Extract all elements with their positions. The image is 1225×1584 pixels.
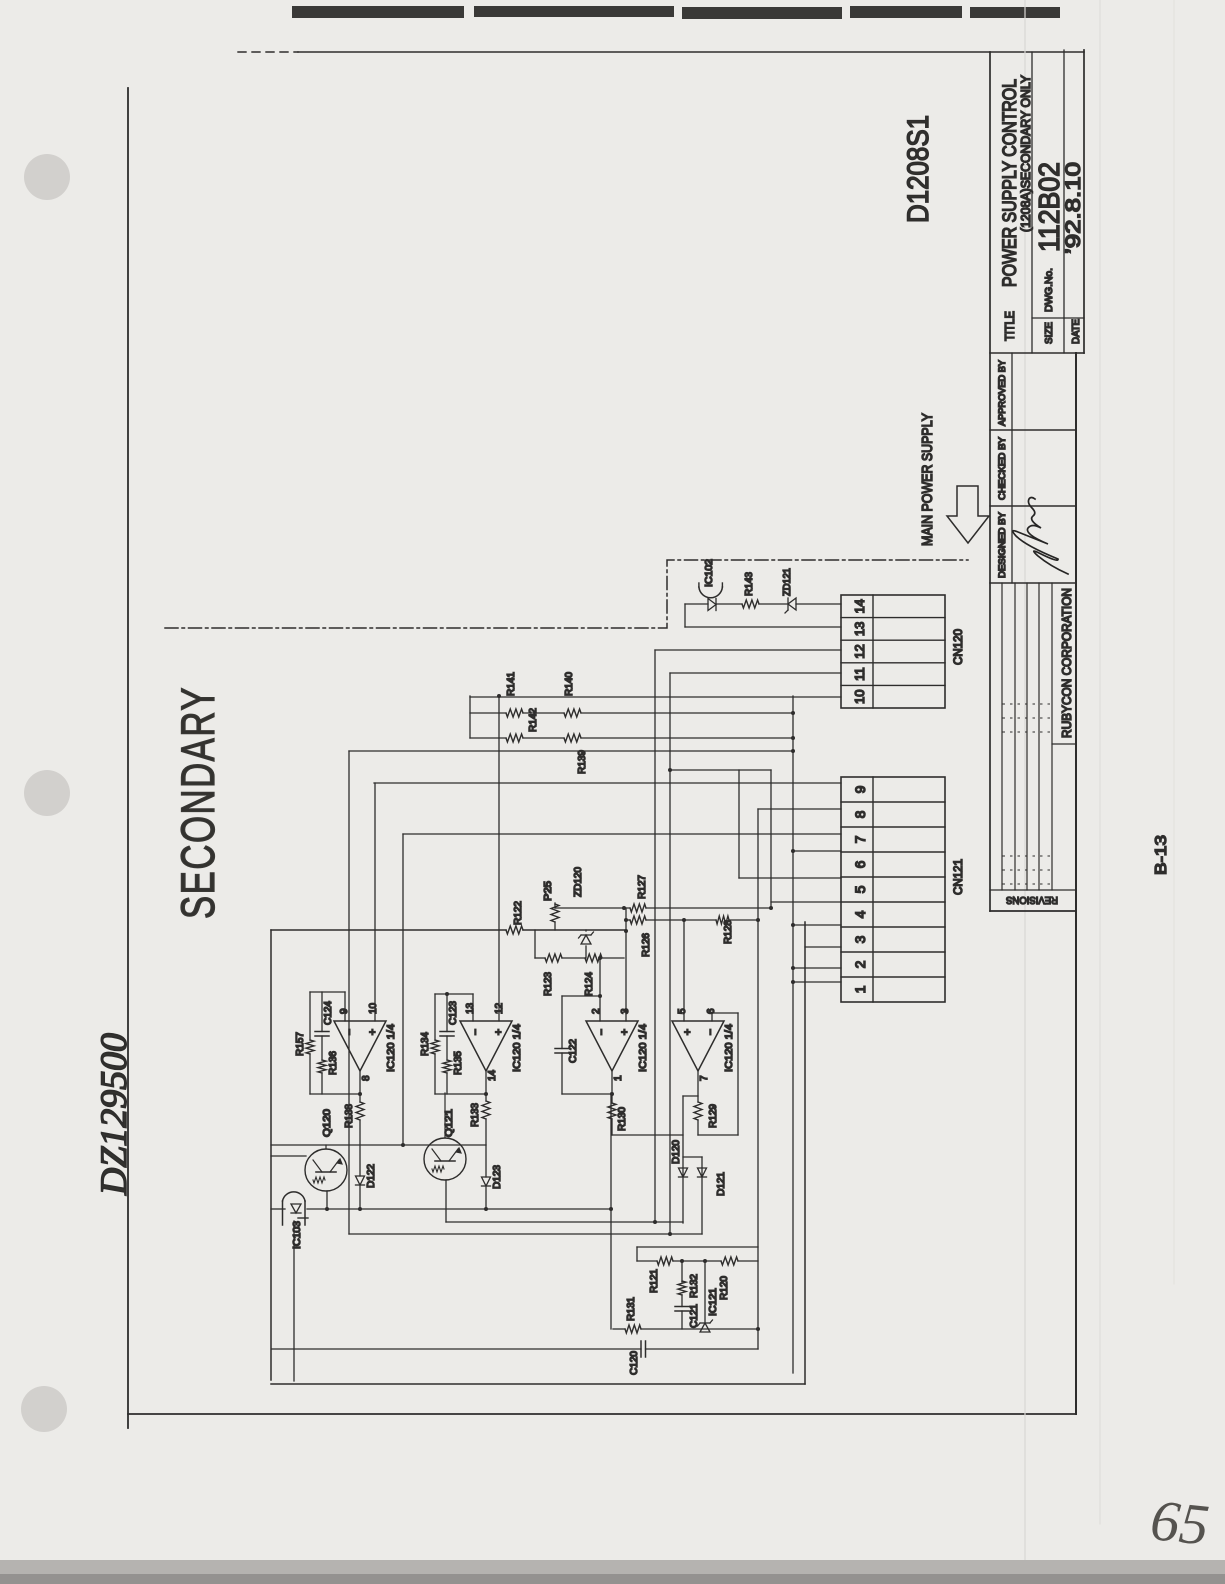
- svg-text:MAIN POWER SUPPLY: MAIN POWER SUPPLY: [919, 413, 936, 546]
- op-amp U1B IC120 1/4: [460, 1021, 512, 1071]
- resistor R128: [716, 916, 729, 924]
- svg-text:6: 6: [852, 860, 868, 868]
- svg-text:5: 5: [677, 1008, 688, 1014]
- svg-text:DESIGNED BY: DESIGNED BY: [997, 512, 1007, 578]
- resistor R121: [657, 1257, 673, 1265]
- SIZE divider line: [1032, 317, 1064, 319]
- svg-text:C122: C122: [568, 1039, 579, 1063]
- diode IC121 branch: [704, 1261, 706, 1322]
- wire CN121 pin8 lead: [758, 808, 841, 810]
- transistor Q120: [305, 1149, 347, 1191]
- wire long collector line y793: [792, 696, 794, 1373]
- svg-text:+: +: [493, 1029, 505, 1035]
- circuit enclosure rail left: [271, 1383, 805, 1385]
- svg-text:14: 14: [487, 1069, 498, 1081]
- svg-text:ZD120: ZD120: [573, 867, 584, 897]
- svg-text:+: +: [367, 1029, 379, 1035]
- opto coupler IC102 body: [699, 587, 723, 598]
- title block bottom extension: [1076, 352, 1084, 354]
- wire CN121 pin4 bus: [770, 770, 772, 908]
- resistor R141: [506, 709, 523, 717]
- designed-checked-approved column lines: [990, 582, 1076, 584]
- wire stage3 output: [611, 1071, 613, 1103]
- secondary boundary dash-dot line: [165, 560, 968, 628]
- resistor R124: [585, 954, 602, 962]
- resistor R142: [506, 734, 523, 742]
- wire R126 rail: [626, 919, 630, 921]
- wire stage3 noninverting input: [625, 908, 627, 1021]
- svg-text:D122: D122: [366, 1164, 377, 1188]
- svg-text:R120: R120: [719, 1276, 730, 1300]
- faint scanner streak line 3: [1173, 0, 1175, 1284]
- wire bus y349 drop: [349, 750, 793, 752]
- resistor R122: [506, 926, 523, 934]
- svg-text:IC120 1/4: IC120 1/4: [637, 1024, 649, 1072]
- wire CN121 pin2 lead: [793, 967, 841, 969]
- wire Q120 rail x439: [271, 1144, 486, 1146]
- svg-text:DZ129500: DZ129500: [94, 1033, 135, 1197]
- wire CN121 pin3 lead: [793, 924, 841, 926]
- svg-text:−: −: [705, 1029, 717, 1035]
- resistor R130: [608, 1103, 616, 1119]
- wire D120-D121 join: [683, 1156, 702, 1158]
- svg-text:R121: R121: [649, 1269, 660, 1293]
- svg-text:4: 4: [852, 910, 868, 918]
- svg-text:10: 10: [368, 1002, 379, 1014]
- svg-text:R130: R130: [617, 1107, 628, 1131]
- wire stage1 feedback top rail: [309, 1054, 311, 1094]
- svg-text:C123: C123: [448, 1001, 459, 1025]
- svg-text:10: 10: [852, 689, 867, 703]
- resistor R134: [431, 1040, 439, 1054]
- svg-text:R140: R140: [564, 672, 575, 696]
- wire stage2 feedback second rail: [446, 1073, 448, 1094]
- svg-text:13: 13: [465, 1002, 476, 1014]
- wire cluster inner rail: [637, 1260, 657, 1262]
- revisions dotted column dividers: [1003, 883, 1052, 885]
- svg-text:R135: R135: [453, 1051, 464, 1075]
- wire CN121 pin5 bus: [738, 770, 740, 878]
- svg-text:R122: R122: [513, 901, 524, 925]
- svg-text:R157: R157: [295, 1032, 306, 1056]
- circuit enclosure rail bottom: [804, 922, 806, 1384]
- svg-text:DWG.No.: DWG.No.: [1043, 268, 1055, 312]
- wire stage4 output: [697, 1071, 699, 1102]
- svg-text:1: 1: [613, 1075, 624, 1081]
- svg-text:R124: R124: [584, 972, 595, 996]
- capacitor C123: [440, 1035, 454, 1037]
- svg-text:SECONDARY: SECONDARY: [171, 686, 224, 919]
- svg-text:R126: R126: [641, 933, 652, 957]
- wire cluster outer rail: [637, 1246, 758, 1248]
- wire bus y349: [348, 751, 350, 1234]
- capacitor C122: [555, 1052, 569, 1054]
- connector CN120 body: [841, 595, 945, 708]
- wire CN121 pin4 lead: [771, 901, 841, 903]
- zener diode ZD121: [788, 598, 796, 610]
- resistor R136: [318, 1060, 326, 1073]
- resistor R140: [564, 709, 581, 717]
- wire stage2 feedback left vertical: [435, 1093, 486, 1095]
- svg-text:2: 2: [852, 960, 868, 968]
- wire divider bracket: [469, 696, 471, 738]
- wire bus y670: [669, 673, 671, 1234]
- svg-text:(1208A)SECONDARY ONLY: (1208A)SECONDARY ONLY: [1018, 75, 1033, 232]
- wire ground rail y611: [610, 1093, 612, 1329]
- wire Q120 emitter: [326, 1191, 328, 1209]
- capacitor C120: [640, 1341, 642, 1357]
- wire cluster spine: [757, 809, 759, 1349]
- svg-text:3: 3: [852, 935, 868, 943]
- svg-text:12: 12: [852, 644, 867, 658]
- wire Q121 emitter drop x362: [446, 1221, 683, 1223]
- svg-text:8: 8: [361, 1075, 372, 1081]
- wire Q120 base lead x428: [271, 1155, 306, 1157]
- sheet frame bottom border: [1075, 353, 1077, 1414]
- resistor R132: [678, 1281, 686, 1295]
- svg-text:R132: R132: [689, 1274, 700, 1298]
- title block outer top edge: [989, 52, 991, 911]
- svg-text:D1208S1: D1208S1: [902, 115, 935, 223]
- wire stage3 inverting input: [599, 958, 601, 1021]
- svg-text:+: +: [682, 1029, 694, 1035]
- wire stage2 inverting input: [472, 994, 474, 1021]
- faint scanner streak line 2: [1099, 0, 1101, 1524]
- svg-text:R127: R127: [637, 875, 648, 899]
- punch hole middle: [24, 770, 70, 816]
- title block revisions area left edge: [990, 910, 1076, 912]
- svg-text:8: 8: [852, 810, 868, 818]
- svg-text:CHECKED BY: CHECKED BY: [997, 437, 1007, 500]
- wire cluster ties: [636, 1247, 638, 1261]
- wire divider rail B: [470, 712, 506, 714]
- RUBYCON CORPORATION cell line: [1052, 743, 1076, 745]
- wire CN120 pin14 chain: [716, 603, 742, 605]
- zener diode ZD120 branch: [585, 946, 587, 958]
- svg-text:−: −: [596, 1029, 608, 1035]
- svg-text:7: 7: [699, 1075, 710, 1081]
- svg-text:R143: R143: [744, 572, 755, 596]
- sign header row line: [1011, 353, 1013, 583]
- svg-text:C124: C124: [323, 1001, 334, 1025]
- wire bus y655: [654, 650, 656, 1222]
- LED inside IC102: [708, 599, 716, 611]
- diode D121: [698, 1168, 707, 1177]
- svg-text:R128: R128: [723, 920, 734, 944]
- wire rail tie top: [534, 930, 536, 958]
- wire CN120 pin12 lead: [655, 649, 841, 651]
- svg-text:D120: D120: [671, 1140, 682, 1164]
- resistor R126: [630, 916, 646, 924]
- wire IC103 main rail x375: [271, 1208, 285, 1210]
- wire stage3 feedback right vertical: [562, 995, 600, 997]
- revisions cell divider: [990, 889, 1076, 891]
- wire stage4 output to R129: [697, 1120, 699, 1135]
- title row line: [1031, 52, 1033, 353]
- resistor R157: [306, 1040, 314, 1054]
- svg-text:RUBYCON CORPORATION: RUBYCON CORPORATION: [1059, 588, 1074, 738]
- wire R127 rail: [555, 907, 630, 909]
- svg-text:7: 7: [852, 835, 868, 843]
- svg-text:D123: D123: [492, 1165, 503, 1189]
- sheet frame top border: [127, 88, 129, 1428]
- resistor R131: [625, 1325, 641, 1333]
- resistor R138: [356, 1102, 364, 1120]
- op-amp U1C IC120 1/4: [586, 1021, 638, 1071]
- svg-text:R139: R139: [577, 750, 588, 774]
- diode D123: [482, 1177, 491, 1186]
- svg-text:’92.8.10: ’92.8.10: [1062, 162, 1085, 254]
- wire riser x814: [670, 769, 771, 771]
- op-amp U1D IC120 1/4: [672, 1021, 724, 1071]
- svg-text:DATE: DATE: [1070, 319, 1082, 344]
- svg-text:REVISIONS: REVISIONS: [1006, 894, 1058, 906]
- wire CN121 pin9 lead: [374, 782, 841, 784]
- diode D122: [356, 1176, 365, 1185]
- wire stage1 feedback second rail: [321, 1073, 323, 1094]
- svg-text:−: −: [470, 1029, 482, 1035]
- wire IC102 top pin: [685, 603, 708, 605]
- capacitor C121: [675, 1310, 689, 1312]
- connector CN121 body: [841, 777, 945, 1002]
- svg-text:−: −: [344, 1029, 356, 1035]
- wire stage3 feedback left vertical: [562, 1093, 612, 1095]
- svg-text:+: +: [619, 1029, 631, 1035]
- svg-text:11: 11: [852, 667, 867, 681]
- zener diode ZD120: [581, 935, 591, 944]
- wire CN121 pin6 lead: [793, 850, 841, 852]
- punch hole bottom: [21, 1386, 67, 1432]
- wire IC103 left pin rail: [293, 1221, 295, 1381]
- svg-text:R123: R123: [543, 972, 554, 996]
- resistor R123: [545, 954, 562, 962]
- size row line: [1063, 50, 1065, 353]
- handwritten page number 65: [1146, 1486, 1225, 1574]
- wire stage4 feedback loop: [698, 1134, 738, 1136]
- svg-text:9: 9: [852, 785, 868, 793]
- wire left riser x350: [349, 1233, 702, 1235]
- wire divider rail A: [470, 737, 506, 739]
- svg-text:R131: R131: [626, 1297, 637, 1321]
- IC103 phototransistor bar: [298, 1217, 308, 1219]
- opto coupler IC103: [283, 1192, 306, 1201]
- wire stage1 noninverting input bus to CN121 pin9: [374, 783, 376, 1021]
- svg-text:Q121: Q121: [444, 1109, 455, 1137]
- wire stage1 inverting input: [344, 992, 346, 1021]
- svg-text:IC102: IC102: [704, 559, 715, 587]
- resistor R120: [721, 1257, 738, 1265]
- resistor R143: [742, 600, 759, 608]
- wire CN121 pin7 bus: [402, 834, 404, 1145]
- wire stage2 noninverting input bus: [498, 696, 500, 1021]
- revisions table row lines: [1001, 583, 1003, 890]
- svg-text:B-13: B-13: [1153, 835, 1170, 875]
- svg-text:P25: P25: [543, 881, 554, 901]
- circuit enclosure rail right with R122: [271, 929, 506, 931]
- svg-text:IC120 1/4: IC120 1/4: [385, 1024, 397, 1072]
- main power supply arrow: [947, 486, 989, 543]
- svg-text:14: 14: [852, 599, 867, 613]
- wire stage1 output line: [359, 1071, 361, 1102]
- punch hole top: [24, 154, 70, 200]
- svg-text:R136: R136: [328, 1051, 339, 1075]
- svg-text:CN120: CN120: [951, 629, 965, 665]
- transistor Q121: [424, 1138, 466, 1180]
- capacitor C124: [315, 1035, 329, 1037]
- svg-text:C120: C120: [629, 1351, 640, 1375]
- faint scanner streak line: [1024, 0, 1026, 1584]
- circuit enclosure rail top: [270, 930, 272, 1380]
- wire stage2 feedback right vertical: [435, 993, 473, 995]
- wire R131 rail: [613, 1328, 625, 1330]
- wire R130 down to D120 line: [612, 1134, 683, 1136]
- svg-text:Q120: Q120: [322, 1109, 333, 1137]
- wire Q120 collector stub: [325, 1145, 327, 1149]
- wire P25 branch: [554, 922, 556, 930]
- wire R123-R124 rail: [535, 957, 545, 959]
- svg-text:TITLE: TITLE: [1002, 311, 1017, 341]
- svg-text:1: 1: [852, 985, 868, 993]
- sheet frame right border: [298, 51, 1084, 53]
- wire stage1 feedback right vertical: [310, 991, 345, 993]
- diode IC121: [700, 1323, 710, 1332]
- svg-text:SIZE: SIZE: [1043, 322, 1055, 344]
- wire Q121 emitter: [445, 1180, 447, 1222]
- svg-text:IC121: IC121: [708, 1288, 719, 1316]
- svg-text:R129: R129: [708, 1104, 719, 1128]
- wire CN121 pin1 lead: [793, 981, 841, 983]
- diode D120: [679, 1168, 688, 1177]
- wire D121 branch: [701, 1157, 703, 1234]
- resistor R129: [694, 1102, 702, 1120]
- bottom scan shadow band: [0, 1560, 1225, 1584]
- resistor P25: [551, 904, 559, 922]
- resistor R135: [443, 1060, 451, 1073]
- wire stage2 feedback top rail: [434, 1054, 436, 1094]
- wire CN121 pin2-3 lead from bottom rail: [805, 946, 841, 948]
- scanner edge dark streaks: [292, 6, 1060, 19]
- wire R132-C121 branch: [681, 1311, 683, 1329]
- svg-text:D121: D121: [716, 1172, 727, 1196]
- svg-text:R142: R142: [528, 708, 539, 732]
- wire stage4 noninverting input: [683, 920, 685, 1021]
- designer signature: [1013, 498, 1068, 575]
- resistor R133: [482, 1101, 490, 1119]
- wire CN120 pin13 lead: [685, 626, 841, 628]
- wire CN120 pin10 lead: [470, 696, 841, 698]
- op-amp U1A IC120 1/4: [334, 1021, 386, 1071]
- svg-text:R141: R141: [506, 672, 517, 696]
- wire CN120 pin11 lead: [670, 672, 841, 674]
- svg-text:13: 13: [852, 622, 867, 636]
- wire CN121 pin5 lead: [739, 877, 841, 879]
- svg-text:CN121: CN121: [951, 859, 965, 895]
- svg-text:R134: R134: [420, 1032, 431, 1056]
- svg-text:ZD121: ZD121: [782, 568, 793, 596]
- svg-text:IC120 1/4: IC120 1/4: [723, 1024, 735, 1072]
- svg-text:5: 5: [852, 885, 868, 893]
- wire stage1 feedback left vertical: [310, 1093, 360, 1095]
- wire D120 link to output: [683, 1095, 698, 1097]
- resistor R139: [564, 734, 581, 742]
- wire D120 branch: [682, 1096, 684, 1223]
- wire C120 rail: [272, 1348, 641, 1350]
- svg-text:APPROVED BY: APPROVED BY: [997, 360, 1007, 426]
- wire stage3 feedback rail with C122: [561, 1053, 563, 1094]
- sheet frame left border: [128, 1413, 1076, 1415]
- wire Q121 collector stub: [444, 1093, 446, 1138]
- DATE divider line: [1064, 317, 1084, 319]
- wire CN121 pin7 lead: [403, 833, 841, 835]
- resistor R127: [630, 904, 646, 912]
- svg-text:R133: R133: [470, 1103, 481, 1127]
- wire stage2 output line with D123 R133: [485, 1071, 487, 1101]
- svg-text:IC120 1/4: IC120 1/4: [511, 1024, 523, 1072]
